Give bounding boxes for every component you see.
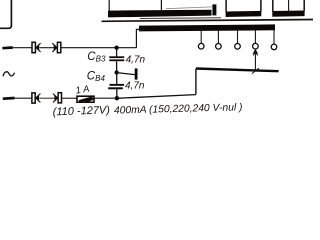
connector X4 socket (58, 93, 61, 103)
voltage selector arrow (254, 53, 256, 71)
tap lead 5 (273, 30, 275, 45)
wire selector to node B (117, 95, 196, 99)
node A junction dot (114, 46, 118, 50)
tap terminal 5 (271, 44, 277, 50)
connector X2 plug (arrow right) (54, 44, 58, 51)
connector X2 socket (57, 42, 60, 52)
winding bar 2 (226, 11, 262, 17)
upper winding end cap (212, 4, 216, 15)
connector X3 plug (arrow left) (36, 94, 40, 101)
winding 2 lead right (260, 0, 262, 12)
wire selector step down (195, 69, 197, 95)
core line 2 (faint) (140, 17, 221, 20)
transformer primary winding bar (139, 24, 275, 31)
tap terminal 3 (235, 44, 241, 50)
node mid junction dot (114, 70, 118, 74)
wire fuse to node B (94, 97, 115, 99)
tap terminal 4 (253, 43, 259, 49)
svg-text:4,7n: 4,7n (125, 81, 145, 92)
capacitor CB3 bottom lead (116, 61, 118, 72)
wire mid node to terminal (117, 73, 135, 75)
winding 3 lead left (272, 0, 274, 12)
wire row2 to fuse (62, 97, 77, 99)
fuse F1 fill smudge (79, 98, 93, 102)
capacitor CB3 top lead (116, 48, 118, 57)
wire top-left corner (mains lead entering) (0, 0, 11, 28)
connector X1 plug (arrow left) (36, 44, 40, 51)
selector bar (196, 69, 279, 72)
capacitor CB4 top lead (116, 73, 118, 85)
tap lead 3 (237, 30, 239, 44)
node B junction dot (115, 96, 119, 100)
connector X3 socket (32, 93, 35, 103)
core line (102, 20, 314, 22)
svg-text:CB3: CB3 (87, 51, 106, 64)
tap lead 2 (217, 30, 219, 44)
fuse F1 body (77, 96, 94, 102)
AC tilde symbol (3, 72, 15, 77)
connector X4 plug (arrow right) (54, 94, 58, 101)
wire row2 left stub (3, 97, 15, 100)
tap lead 4 (254, 30, 256, 44)
winding lead x161 (160, 0, 162, 10)
svg-text:(110 -127V): (110 -127V) (52, 104, 110, 118)
wire between connectors row1 (39, 47, 54, 49)
wire between connectors row2 (39, 97, 55, 99)
svg-text:400mA (150,220,240 V-nul ): 400mA (150,220,240 V-nul ) (114, 102, 243, 116)
selector cross tick (252, 68, 259, 73)
wire row1 left stub (2, 46, 12, 49)
winding 3 lead mid (288, 0, 290, 11)
svg-text:1 A: 1 A (75, 84, 90, 97)
wire row1 to node A (61, 47, 136, 49)
wire row1 to connector X1 (13, 47, 32, 49)
winding bar 3 (272, 11, 304, 17)
transformer T1 upper winding bar (108, 10, 212, 18)
winding 3 lead right (303, 0, 305, 11)
connector X1 socket (32, 42, 35, 52)
winding lead x109 (108, 0, 110, 12)
capacitor CB4 (110, 84, 125, 86)
svg-text:CB4: CB4 (87, 71, 106, 84)
wire up to primary winding (136, 29, 140, 47)
capacitor CB4 bottom lead (116, 89, 118, 98)
tap terminal 1 (198, 43, 204, 49)
winding 2 lead left (225, 0, 227, 12)
tap lead 1 (200, 30, 202, 44)
svg-text:4,7n: 4,7n (126, 55, 146, 66)
tap terminal 2 (216, 44, 222, 50)
capacitor CB3 (109, 56, 124, 58)
chassis terminal bar (135, 68, 138, 79)
screen wire above winding (166, 7, 212, 9)
wire row2 to connector X3 (15, 97, 32, 99)
